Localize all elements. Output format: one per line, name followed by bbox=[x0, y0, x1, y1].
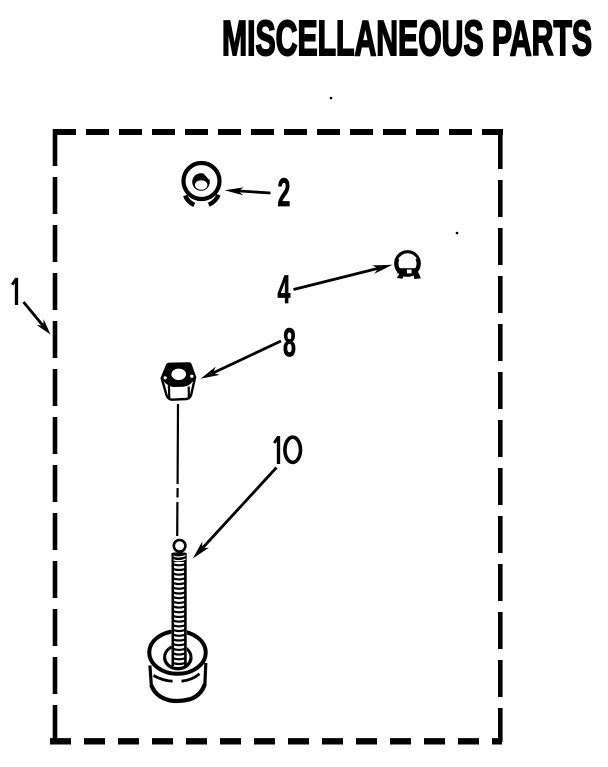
arrow leader for 10 bbox=[198, 468, 277, 554]
svg-text:4: 4 bbox=[278, 266, 291, 311]
axis center line bbox=[177, 404, 180, 484]
left border bbox=[53, 129, 58, 743]
stud shaft blank bbox=[171, 550, 187, 667]
foot bottom arc bbox=[151, 684, 205, 701]
right border bbox=[498, 132, 503, 742]
clamp left leg bbox=[397, 273, 406, 279]
grommet part 2 outer bbox=[184, 163, 220, 199]
grommet bottom lip bbox=[185, 196, 194, 206]
stud dark collar bbox=[173, 553, 186, 563]
hex nut part 8 body faces bbox=[162, 363, 195, 399]
hose clamp part 4 ring bbox=[396, 252, 418, 274]
arrow leader for 2 bbox=[232, 191, 271, 194]
foot seam arcs bbox=[154, 676, 173, 682]
svg-text:2: 2 bbox=[278, 169, 291, 214]
nut face separators bbox=[168, 386, 171, 400]
arrow leader for 1 bbox=[24, 302, 48, 331]
top border bbox=[53, 129, 503, 135]
svg-text:MISCELLANEOUS PARTS: MISCELLANEOUS PARTS bbox=[222, 10, 592, 66]
foot hole ellipse rear half bbox=[165, 646, 191, 657]
nut top ring bbox=[162, 364, 195, 388]
grommet gap slash bbox=[203, 171, 210, 179]
nut corner highlights bbox=[164, 376, 167, 379]
stud threads bbox=[172, 564, 185, 664]
clamp crimp band bbox=[397, 268, 418, 273]
foot hole front rim over stud bbox=[165, 657, 191, 668]
arrow leader for 4 bbox=[294, 268, 381, 290]
arrow leader for 8 bbox=[209, 341, 281, 375]
stud ball tip bbox=[174, 540, 186, 552]
speck dot upper bbox=[330, 97, 333, 100]
speck dot right bbox=[456, 232, 459, 235]
nut hole bbox=[171, 369, 186, 380]
label 1 bbox=[12, 278, 16, 305]
clamp inner highlight bbox=[399, 254, 416, 259]
dashed border box bbox=[50, 129, 503, 743]
clamp right leg bbox=[413, 272, 421, 279]
svg-text:8: 8 bbox=[283, 319, 296, 364]
bottom border bbox=[50, 738, 502, 744]
grommet hole bbox=[192, 173, 210, 191]
stud shaft edges bbox=[172, 553, 175, 666]
foot rim ellipse bbox=[149, 631, 205, 674]
label 10 bbox=[274, 436, 300, 464]
foot side walls bbox=[150, 666, 152, 687]
